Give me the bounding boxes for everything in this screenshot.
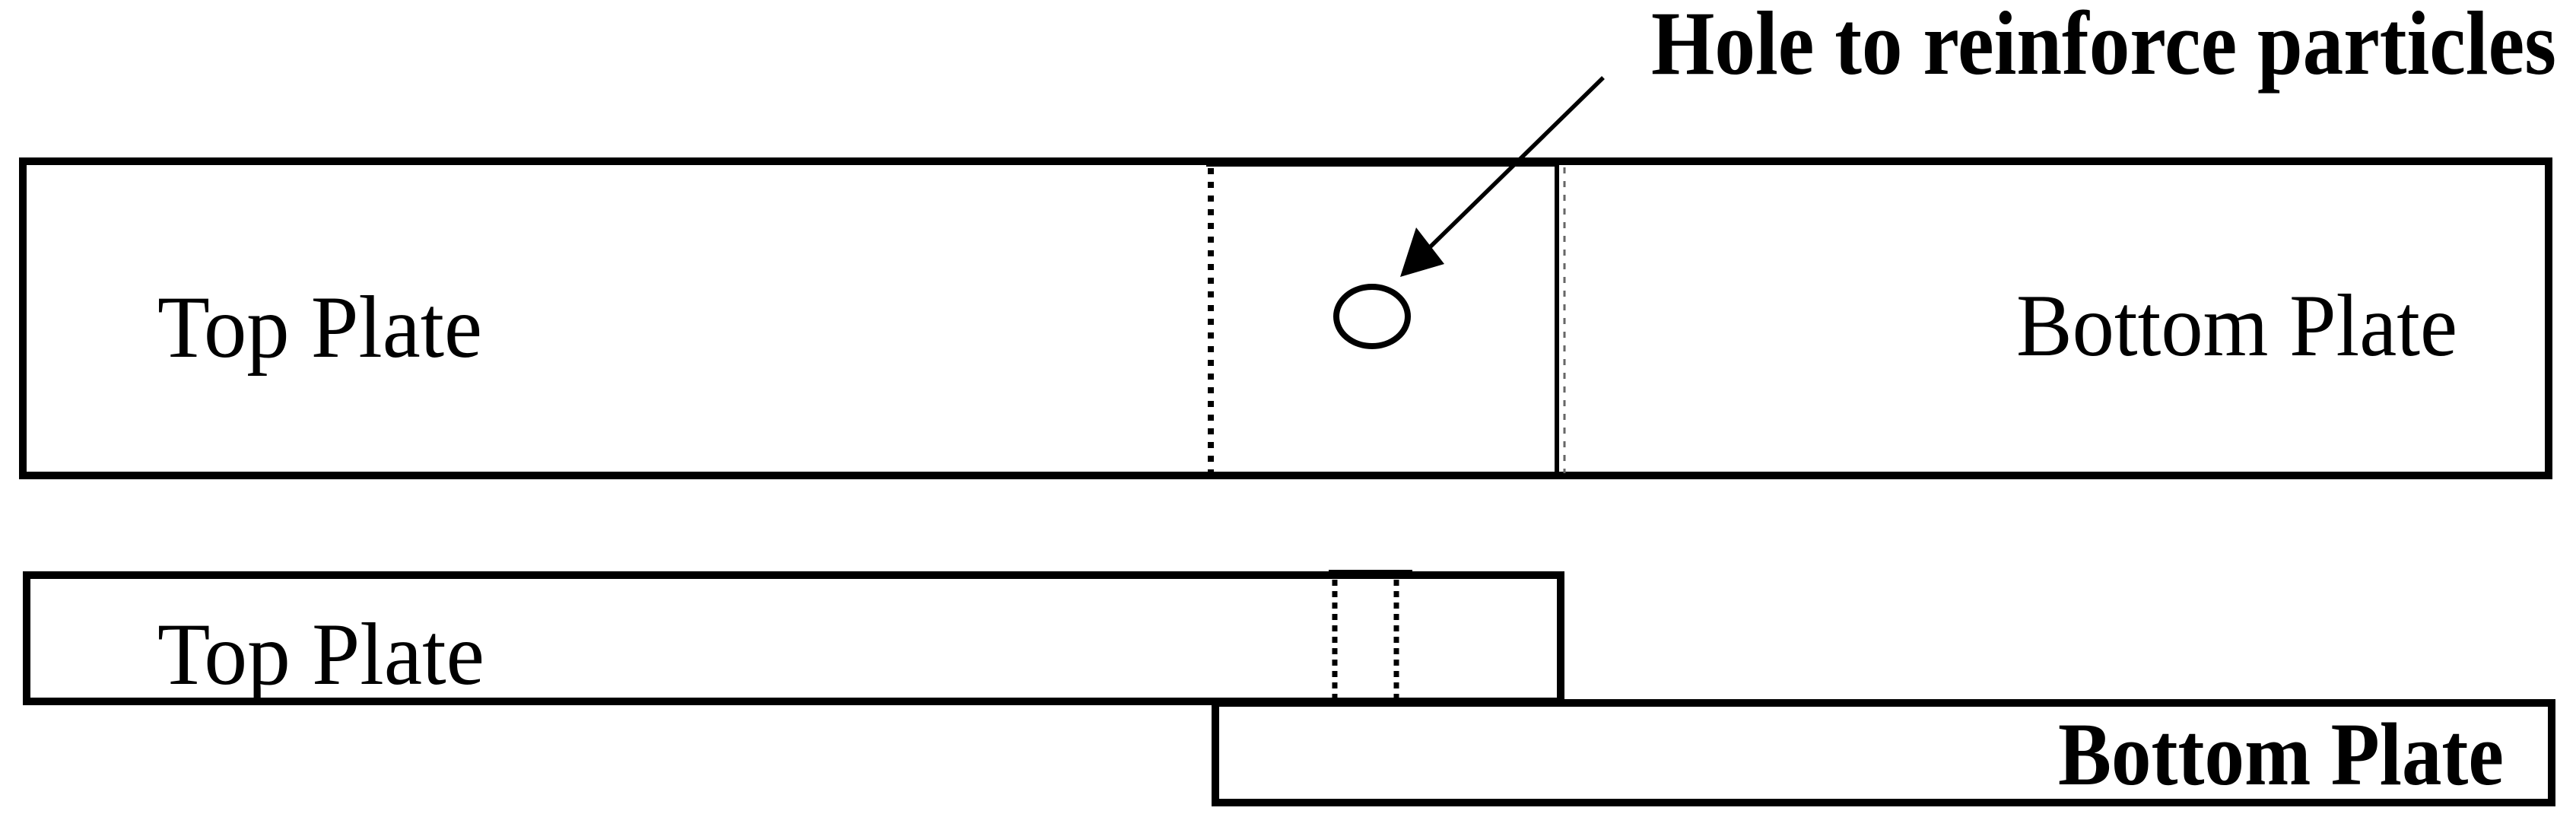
hole circle — [1336, 287, 1408, 346]
bottom plate rectangle (side view) — [1215, 703, 2552, 803]
svg-text:Top Plate: Top Plate — [157, 278, 482, 377]
svg-text:Bottom Plate: Bottom Plate — [2058, 704, 2504, 804]
svg-text:Bottom Plate: Bottom Plate — [2016, 277, 2457, 375]
svg-text:Hole to reinforce particles: Hole to reinforce particles — [1651, 0, 2556, 94]
top plate right edge solid line — [1555, 161, 1559, 476]
arrowhead — [1400, 227, 1444, 277]
faint dotted edge right of solid line — [1564, 167, 1566, 473]
hidden edge dotted line (left of overlap) — [1208, 168, 1214, 476]
arrow leader line — [1430, 78, 1603, 247]
overlap section thick top border — [1206, 157, 1559, 167]
svg-text:Top Plate: Top Plate — [157, 606, 484, 704]
hole hidden edges (side view) dotted lines — [1332, 580, 1338, 702]
top plate rectangle (top view) — [23, 161, 2549, 475]
hole thick top border segment (side view) — [1329, 570, 1412, 579]
top plate rectangle (side view) — [27, 575, 1561, 701]
